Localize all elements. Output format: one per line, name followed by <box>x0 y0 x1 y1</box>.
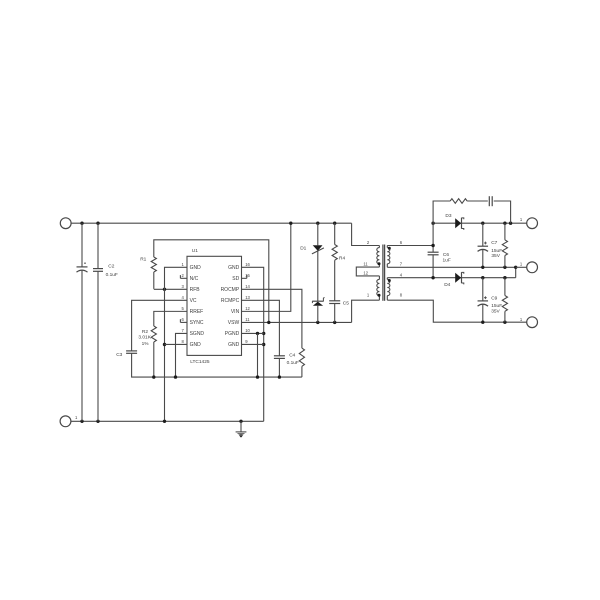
svg-text:10: 10 <box>245 328 250 333</box>
svg-text:RCMPC: RCMPC <box>221 298 240 304</box>
svg-text:15: 15 <box>245 273 250 278</box>
svg-text:ROCMP: ROCMP <box>221 287 240 293</box>
svg-text:D3: D3 <box>445 213 451 219</box>
svg-text:8: 8 <box>400 293 403 298</box>
svg-text:4: 4 <box>400 272 403 277</box>
svg-text:16: 16 <box>245 262 250 267</box>
svg-text:SGND: SGND <box>190 331 205 337</box>
svg-text:11: 11 <box>245 317 250 322</box>
svg-text:D1: D1 <box>300 245 306 251</box>
svg-text:15uF: 15uF <box>491 303 502 309</box>
svg-text:4: 4 <box>181 295 184 300</box>
svg-text:6: 6 <box>400 240 403 245</box>
svg-text:GND: GND <box>228 265 240 271</box>
svg-text:12: 12 <box>245 306 250 311</box>
svg-text:RFB: RFB <box>190 287 201 293</box>
svg-text:1: 1 <box>367 293 370 298</box>
svg-text:3.01K: 3.01K <box>138 335 151 341</box>
svg-text:C7: C7 <box>491 240 497 246</box>
svg-text:15uF: 15uF <box>491 248 502 254</box>
svg-text:SD: SD <box>232 276 239 282</box>
svg-text:U1: U1 <box>192 248 198 254</box>
svg-text:1: 1 <box>75 415 78 420</box>
svg-text:1: 1 <box>181 262 184 267</box>
svg-text:D4: D4 <box>444 282 450 288</box>
svg-text:7: 7 <box>400 261 403 266</box>
svg-text:2: 2 <box>367 240 370 245</box>
svg-text:R4: R4 <box>339 256 345 262</box>
svg-text:C3: C3 <box>116 352 122 358</box>
svg-text:6: 6 <box>181 317 184 322</box>
svg-text:8: 8 <box>181 339 184 344</box>
svg-text:GND: GND <box>190 265 202 271</box>
svg-text:C5: C5 <box>343 301 349 307</box>
svg-text:VIN: VIN <box>231 309 240 315</box>
svg-text:C6: C6 <box>443 252 449 258</box>
svg-text:1: 1 <box>520 317 523 322</box>
svg-text:LTC1425: LTC1425 <box>190 359 210 365</box>
svg-text:14: 14 <box>245 284 250 289</box>
svg-text:PGND: PGND <box>225 331 240 337</box>
svg-text:C4: C4 <box>289 353 295 359</box>
svg-text:11: 11 <box>363 262 368 267</box>
svg-text:0.1uF: 0.1uF <box>287 360 299 366</box>
svg-text:13: 13 <box>245 295 250 300</box>
svg-text:1: 1 <box>520 261 523 266</box>
svg-text:C2: C2 <box>108 264 114 270</box>
svg-text:GND: GND <box>190 342 202 348</box>
svg-text:R2: R2 <box>142 329 148 335</box>
svg-text:12: 12 <box>363 271 368 276</box>
svg-text:2: 2 <box>181 273 184 278</box>
svg-text:R1: R1 <box>140 256 146 262</box>
svg-text:N/C: N/C <box>190 276 199 282</box>
svg-text:35V: 35V <box>491 309 500 315</box>
svg-text:1uF: 1uF <box>443 258 451 264</box>
svg-text:3: 3 <box>181 284 184 289</box>
svg-text:1: 1 <box>520 217 523 222</box>
svg-text:VC: VC <box>190 298 197 304</box>
svg-text:7: 7 <box>181 328 184 333</box>
svg-text:5: 5 <box>181 306 184 311</box>
svg-text:VSW: VSW <box>228 320 240 326</box>
svg-text:GND: GND <box>228 342 240 348</box>
svg-text:RREF: RREF <box>190 309 204 315</box>
svg-text:0.1uF: 0.1uF <box>106 272 118 278</box>
svg-text:SYNC: SYNC <box>190 320 204 326</box>
svg-text:1%: 1% <box>142 341 150 347</box>
svg-text:C9: C9 <box>491 296 497 302</box>
svg-text:35V: 35V <box>491 253 500 259</box>
svg-text:9: 9 <box>245 339 248 344</box>
